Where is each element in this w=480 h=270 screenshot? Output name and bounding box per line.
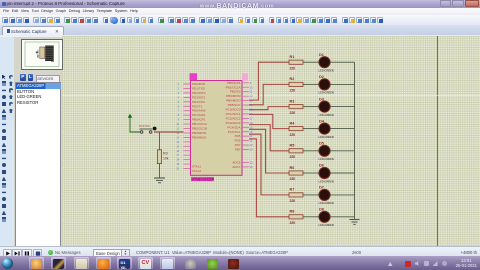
svg-text:LED-GREEN: LED-GREEN xyxy=(319,157,334,161)
svg-text:R5: R5 xyxy=(290,144,295,148)
svg-text:LED-GREEN: LED-GREEN xyxy=(319,223,334,227)
svg-text:220: 220 xyxy=(290,221,296,225)
svg-text:LED-GREEN: LED-GREEN xyxy=(319,201,334,205)
svg-text:PD1/TXD: PD1/TXD xyxy=(192,86,206,90)
svg-text:PD5/T1: PD5/T1 xyxy=(192,104,203,108)
svg-text:4: 4 xyxy=(178,97,180,99)
svg-text:PD2/INT0: PD2/INT0 xyxy=(192,91,206,95)
svg-text:7: 7 xyxy=(178,111,180,113)
svg-text:D5: D5 xyxy=(319,142,324,146)
svg-text:1: 1 xyxy=(178,84,180,86)
svg-text:LED-GREEN: LED-GREEN xyxy=(319,113,334,117)
svg-text:LED-GREEN: LED-GREEN xyxy=(319,69,334,73)
svg-text:D6: D6 xyxy=(319,164,324,168)
svg-text:11: 11 xyxy=(250,92,253,94)
svg-text:11: 11 xyxy=(177,129,180,131)
svg-text:8: 8 xyxy=(178,115,180,117)
svg-text:10: 10 xyxy=(250,87,253,89)
svg-text:20: 20 xyxy=(250,132,253,134)
svg-text:16: 16 xyxy=(176,151,179,153)
svg-text:ADC7: ADC7 xyxy=(232,165,240,169)
svg-text:24: 24 xyxy=(250,150,253,152)
svg-text:12: 12 xyxy=(250,96,253,98)
svg-text:D3: D3 xyxy=(319,97,324,101)
svg-text:LED-GREEN: LED-GREEN xyxy=(319,135,334,139)
svg-text:10k: 10k xyxy=(163,157,169,161)
svg-text:PD3/INT1: PD3/INT1 xyxy=(192,95,206,99)
svg-text:PB1/OC1A: PB1/OC1A xyxy=(226,85,242,89)
svg-text:13: 13 xyxy=(176,137,179,139)
svg-text:PB1/OC1A: PB1/OC1A xyxy=(192,122,208,126)
svg-text:23: 23 xyxy=(250,145,253,147)
svg-text:PB0/ICP1: PB0/ICP1 xyxy=(192,118,206,122)
svg-text:PC1/ADC1: PC1/ADC1 xyxy=(226,112,241,116)
svg-text:R4: R4 xyxy=(290,121,296,125)
svg-text:PB2/SS: PB2/SS xyxy=(230,90,241,94)
svg-text:ADC6: ADC6 xyxy=(232,160,240,164)
svg-text:PD5: PD5 xyxy=(235,134,241,138)
svg-text:PD6/AIN0: PD6/AIN0 xyxy=(192,109,206,113)
svg-text:21: 21 xyxy=(250,136,253,138)
svg-text:PD4/XCK: PD4/XCK xyxy=(192,100,205,104)
svg-text:3: 3 xyxy=(178,93,180,95)
svg-text:PB7: PB7 xyxy=(235,148,241,152)
svg-text:D7: D7 xyxy=(319,186,324,190)
svg-text:PB0/ICP1: PB0/ICP1 xyxy=(227,81,241,85)
svg-text:PC5/SCL: PC5/SCL xyxy=(228,130,241,134)
svg-text:PB3/MOSI: PB3/MOSI xyxy=(192,131,207,135)
svg-text:220: 220 xyxy=(290,155,296,159)
svg-text:9: 9 xyxy=(178,120,180,122)
svg-text:5: 5 xyxy=(178,102,180,104)
svg-text:14: 14 xyxy=(176,142,179,144)
svg-text:15: 15 xyxy=(176,146,179,148)
svg-text:2: 2 xyxy=(178,88,180,90)
svg-text:12: 12 xyxy=(176,133,179,135)
svg-text:14: 14 xyxy=(250,105,253,107)
svg-text:9: 9 xyxy=(250,83,252,85)
svg-text:220: 220 xyxy=(290,199,296,203)
svg-text:PB4/MISO: PB4/MISO xyxy=(226,99,241,103)
svg-text:R2: R2 xyxy=(290,77,295,81)
svg-text:LED-GREEN: LED-GREEN xyxy=(319,91,334,95)
svg-text:R7: R7 xyxy=(290,188,295,192)
svg-text:R1: R1 xyxy=(290,55,295,59)
svg-text:R8: R8 xyxy=(290,210,295,214)
svg-text:D1: D1 xyxy=(319,53,324,57)
svg-text:PD0/RXD: PD0/RXD xyxy=(192,82,206,86)
svg-text:PD6: PD6 xyxy=(235,139,241,143)
svg-text:LED-GREEN: LED-GREEN xyxy=(319,179,334,183)
svg-text:6: 6 xyxy=(178,106,180,108)
svg-text:PD7/AIN1: PD7/AIN1 xyxy=(192,113,206,117)
svg-text:BUTTON: BUTTON xyxy=(139,124,150,128)
svg-text:ATMEGA328P: ATMEGA328P xyxy=(192,177,215,181)
svg-text:D2: D2 xyxy=(319,75,324,79)
svg-text:17: 17 xyxy=(176,155,179,157)
svg-text:220: 220 xyxy=(290,177,296,181)
svg-text:220: 220 xyxy=(290,133,296,137)
svg-text:R6: R6 xyxy=(290,166,295,170)
svg-text:XTAL1: XTAL1 xyxy=(192,164,201,168)
svg-text:PB2/OC1B: PB2/OC1B xyxy=(192,127,207,131)
svg-text:220: 220 xyxy=(290,89,296,93)
svg-text:R3: R3 xyxy=(290,99,295,103)
svg-text:PC4/SDA: PC4/SDA xyxy=(227,125,241,129)
svg-text:220: 220 xyxy=(290,66,296,70)
svg-text:13: 13 xyxy=(250,101,253,103)
svg-text:220: 220 xyxy=(290,111,296,115)
svg-text:XTAL2: XTAL2 xyxy=(192,169,201,173)
svg-text:18: 18 xyxy=(176,160,179,162)
svg-text:22: 22 xyxy=(250,141,253,143)
svg-text:17: 17 xyxy=(250,118,253,120)
svg-text:PC0/ADC0: PC0/ADC0 xyxy=(226,108,241,112)
svg-text:PC2/ADC2: PC2/ADC2 xyxy=(226,116,241,120)
svg-text:R9: R9 xyxy=(163,152,168,156)
svg-text:PB5/SCK: PB5/SCK xyxy=(228,103,241,107)
svg-text:20: 20 xyxy=(176,169,179,171)
svg-text:PB3/MOSI: PB3/MOSI xyxy=(226,94,241,98)
svg-text:10: 10 xyxy=(176,124,179,126)
svg-text:D8: D8 xyxy=(319,208,324,212)
svg-text:PD7: PD7 xyxy=(235,143,241,147)
svg-text:26: 26 xyxy=(250,167,253,169)
svg-text:25: 25 xyxy=(250,162,253,164)
svg-text:PC3/ADC3: PC3/ADC3 xyxy=(226,121,241,125)
svg-text:PB4/MISO: PB4/MISO xyxy=(192,135,207,139)
svg-text:19: 19 xyxy=(176,164,179,166)
